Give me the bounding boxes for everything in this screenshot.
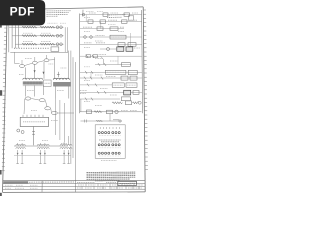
title block line 4 xyxy=(3,188,146,190)
terminal dot strip row xyxy=(14,47,49,50)
long feeder vertical 2 xyxy=(72,57,74,158)
arrester A2 xyxy=(43,72,45,75)
bus wire vertical 3 xyxy=(14,25,16,48)
rung 4 wire xyxy=(80,36,142,38)
rung 1 contact box B xyxy=(124,13,130,16)
feeder row 2 breaker circles xyxy=(56,34,59,37)
bus wire vertical 1 xyxy=(8,25,10,52)
bottom rung coil xyxy=(94,111,102,113)
bottom rung left drop xyxy=(80,99,82,112)
arrester A1 xyxy=(34,70,36,73)
battery charger label xyxy=(23,121,45,123)
meter box M1 xyxy=(51,47,59,51)
CT group 2 drops xyxy=(39,150,46,164)
ladder mid vertical c xyxy=(100,22,102,29)
feeder row 3 breaker circles xyxy=(56,43,59,46)
CT winding group 3 xyxy=(60,144,72,145)
fuse oval F3 xyxy=(45,107,51,110)
ladder mid vertical b xyxy=(85,15,87,22)
collector wire horizontal xyxy=(10,51,68,53)
rung 6 dark box A xyxy=(117,47,124,51)
rung 9 long box label xyxy=(107,71,124,73)
switch oval S1 xyxy=(20,65,25,68)
drop to switch chain xyxy=(15,52,20,63)
rung 7 wire xyxy=(80,55,142,57)
ladder left rail xyxy=(79,14,81,114)
rung 11 wire xyxy=(80,84,113,86)
rung 3 labels xyxy=(83,26,124,28)
rung 10 box A xyxy=(121,76,128,80)
rung 4 relay circles xyxy=(84,36,87,39)
feeder row 2 wire xyxy=(12,35,63,37)
transformer T1 riser 2 xyxy=(34,64,36,79)
page binding mark left edge A xyxy=(0,21,2,28)
CT group 2 arrows xyxy=(40,153,46,156)
drawing frame left border xyxy=(3,10,8,192)
note text block top center xyxy=(47,11,72,17)
CT winding group 1 xyxy=(16,144,26,145)
drawing number text xyxy=(120,182,135,184)
table left labels xyxy=(5,185,38,188)
row connector verticals xyxy=(64,27,66,52)
page binding mark left edge D xyxy=(0,193,2,196)
bus labels small text xyxy=(48,22,67,24)
terminal feed circle xyxy=(119,120,121,122)
rung 2 contact box A xyxy=(88,20,93,23)
rung 1 relay circle xyxy=(82,13,85,16)
revision table top right xyxy=(107,15,126,18)
rung 8 contacts xyxy=(98,63,106,66)
CT group 1 drops xyxy=(16,150,23,164)
rung 6 relay circle xyxy=(107,48,110,51)
rung 3 contact box B xyxy=(110,27,118,31)
drawing frame top border xyxy=(45,7,143,9)
rung 5 contact box B xyxy=(128,43,136,47)
bus wire vertical 2 xyxy=(11,25,13,48)
transformer T1 riser 3 xyxy=(43,62,45,79)
title block line 2 xyxy=(3,182,145,184)
terminal row C labels xyxy=(99,155,121,157)
feeder row 1 resistor group b xyxy=(40,26,55,28)
PDF badge xyxy=(0,0,45,25)
rung 4 long box xyxy=(110,35,126,39)
long feeder vertical 3 xyxy=(74,62,76,181)
ladder mid vertical d xyxy=(117,56,119,64)
rung 4 long box label xyxy=(112,36,125,38)
feeder row 1 wire xyxy=(9,26,64,28)
terminal row A stubs xyxy=(100,127,119,129)
title row 2 text xyxy=(78,184,143,186)
distribution wire horizontal xyxy=(14,145,68,147)
rung 11 box labels xyxy=(114,84,136,86)
sheet cell text xyxy=(138,182,143,184)
battery charger box xyxy=(20,117,48,126)
rung 12 wire xyxy=(80,91,143,93)
feeder row 2 resistor group a xyxy=(22,35,37,37)
feeder row 3 resistor group a xyxy=(22,43,37,45)
terminal row B dots xyxy=(98,144,120,146)
bottom rung box B xyxy=(107,110,113,114)
rung 5 wire xyxy=(80,43,142,45)
ladder right rail xyxy=(142,10,143,113)
fuse oval F4 xyxy=(52,111,58,114)
drawing frame right border xyxy=(143,7,145,192)
wire links fuses xyxy=(24,99,74,115)
rung 2 labels xyxy=(108,19,138,21)
transformer T2 secondary winding xyxy=(53,82,70,86)
feeder row 3 resistor group b xyxy=(40,43,55,45)
title block bottom border xyxy=(3,191,146,194)
rung 9 wire xyxy=(80,71,142,73)
feeder bend wires xyxy=(55,99,64,143)
rung 1 contact box A xyxy=(103,13,108,16)
ladder top labels xyxy=(86,11,103,13)
rung 12 box right xyxy=(133,91,139,95)
wire oval links xyxy=(22,55,55,66)
svg-text:PDF: PDF xyxy=(10,5,35,19)
terminal row A dots xyxy=(98,132,120,134)
terminal row B labels xyxy=(99,147,121,149)
rung 10 wire xyxy=(80,77,142,79)
transformer T1 riser 1 xyxy=(25,68,27,79)
rung 10 contacts xyxy=(84,77,103,80)
rung 9 contacts xyxy=(85,71,93,74)
rung 4 labels xyxy=(96,34,105,36)
rung 2 contact box C xyxy=(122,20,128,23)
title row 1 text xyxy=(77,181,116,183)
frame zone tick marks right xyxy=(143,10,148,170)
rung 7 label xyxy=(97,54,106,56)
rung 1 wire xyxy=(80,14,142,16)
riser wires below transformers xyxy=(26,85,69,98)
title row 3 text xyxy=(77,187,142,189)
fuse oval F2 xyxy=(39,99,45,102)
meter circle pair xyxy=(17,129,20,132)
terminal box footnote xyxy=(101,160,117,162)
terminal feed rung xyxy=(81,120,123,122)
page binding mark left edge C xyxy=(0,170,2,175)
bus wire vertical 4 xyxy=(18,25,20,48)
rung 6 dark box B xyxy=(126,47,133,51)
rung 9 long box xyxy=(105,70,126,74)
rung 8 wire xyxy=(95,64,131,66)
feeder row 2 label xyxy=(23,32,51,34)
revision box xyxy=(128,16,133,20)
feeder label xyxy=(61,143,67,145)
frame zone tick marks left xyxy=(2,28,7,171)
heater circle xyxy=(138,101,141,104)
heater resistor row xyxy=(112,102,122,104)
fuse oval F1 xyxy=(25,97,31,100)
rung 2 contact box B xyxy=(100,20,106,23)
terminal row C dots xyxy=(98,152,120,154)
CT feed wires xyxy=(18,136,69,145)
drawing number cell box xyxy=(118,181,137,185)
title block top line xyxy=(3,179,145,181)
bottom rung labels xyxy=(121,109,137,111)
feeder row 1 breaker circles xyxy=(56,26,59,29)
ladder mid vertical a xyxy=(130,33,132,49)
title strip text band xyxy=(3,181,28,183)
switch oval S3 xyxy=(44,59,49,62)
transformer T1 secondary ticks xyxy=(25,81,40,84)
terminal box feed wire xyxy=(109,113,111,121)
rung 6 label xyxy=(134,47,140,49)
distribution wire horizontal lower xyxy=(14,155,71,157)
bottom rung circle xyxy=(115,110,118,113)
terminal mid label xyxy=(99,140,121,142)
rung 7 drop wire xyxy=(101,56,104,64)
transformer T2 primary winding xyxy=(53,78,69,80)
transformer T1 secondary fringe xyxy=(23,84,43,86)
junction box J1 xyxy=(44,80,52,86)
long feeder vertical 1 xyxy=(70,51,72,164)
note divider wire xyxy=(82,10,84,17)
bottom rung box A xyxy=(87,110,92,114)
terminal feed rung marks xyxy=(84,120,119,123)
page binding mark left edge B xyxy=(0,90,2,96)
feeder row 3 label xyxy=(23,41,51,43)
title block line 3 xyxy=(3,185,145,187)
rung 7 small boxes xyxy=(86,55,91,58)
switch oval S2 xyxy=(32,61,37,64)
battery charger studs xyxy=(23,115,43,118)
rung 9 right box xyxy=(128,70,137,74)
heater resistor row b xyxy=(133,102,139,104)
rung 11 contacts xyxy=(87,84,97,87)
rung 2 wire xyxy=(80,21,142,23)
fuse drop wire xyxy=(32,127,35,146)
ladder mid vertical e xyxy=(90,72,92,78)
rung 7 contacts xyxy=(86,55,94,58)
rung 13 box xyxy=(121,97,130,101)
rung 13 contacts xyxy=(85,98,93,101)
misc component labels left xyxy=(19,59,67,141)
rung 3 wire xyxy=(80,28,124,30)
rung 11 label box B xyxy=(126,83,137,87)
rung 3 contact box A xyxy=(97,27,103,31)
junction box J1 inner mark xyxy=(45,82,51,84)
certification note paragraph xyxy=(87,172,136,181)
terminal detail box xyxy=(95,125,125,159)
heater box xyxy=(126,101,132,105)
rung 11 label box A xyxy=(112,83,124,87)
CT group 3 arrows xyxy=(63,153,69,156)
misc component labels right xyxy=(84,18,124,106)
rung 8 box xyxy=(121,63,130,67)
rung 5 contact box A xyxy=(118,43,125,47)
rung 13 wire xyxy=(80,98,120,100)
title block divider a xyxy=(41,181,43,193)
transformer T2 riser 1 xyxy=(54,57,56,79)
rung 6 wire xyxy=(100,48,117,50)
transformer T1 secondary winding xyxy=(23,81,43,84)
rung 12 text left xyxy=(80,91,87,94)
bottom rung wire xyxy=(80,111,142,113)
rung 12 dark box xyxy=(124,90,131,95)
arrester A3 xyxy=(57,72,60,77)
transformer T2 riser 2 xyxy=(68,51,70,79)
rung 1 labels xyxy=(89,12,138,14)
feeder row 2 resistor group b xyxy=(40,35,55,37)
title row 3 cells xyxy=(82,187,139,190)
rung 10 box B xyxy=(130,76,137,80)
transformer T1 primary winding xyxy=(23,78,43,80)
feeder row 1 resistor group a xyxy=(22,26,37,28)
rung 5 labels xyxy=(84,42,105,44)
rung 12 contacts xyxy=(97,91,106,94)
CT winding group 2 xyxy=(37,144,49,145)
title row 2 cells xyxy=(86,184,134,187)
CT group 3 drops xyxy=(63,150,70,164)
title block divider b xyxy=(74,181,76,193)
feeder row 3 wire xyxy=(15,43,63,45)
rung 10 labels xyxy=(106,75,116,77)
terminal row A labels xyxy=(99,135,121,137)
CT group 1 arrows xyxy=(17,153,23,156)
title strip text band light xyxy=(29,181,74,183)
